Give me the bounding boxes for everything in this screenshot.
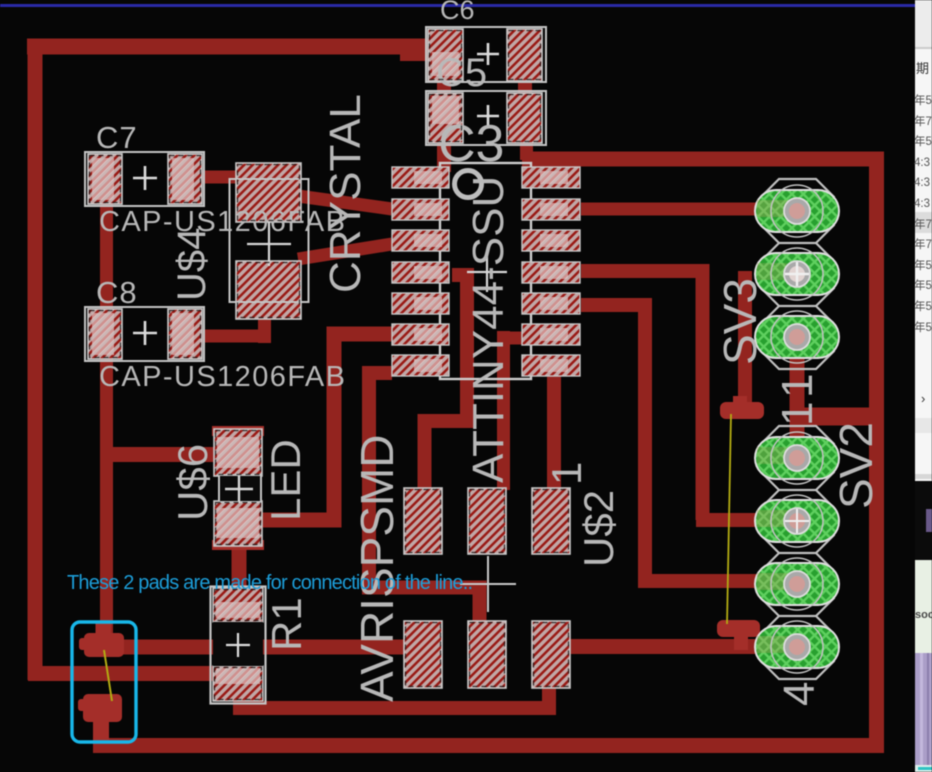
wire: C8 right to crystal bottom [202, 310, 265, 343]
wire: crystal to IC pin2 diagonal [298, 196, 392, 209]
wire: SV3 branch vertical [738, 271, 752, 405]
pad pin3 [755, 558, 839, 610]
wire: IC pin6 right to AVRISP top-middle [504, 331, 523, 490]
svg-text:年5: 年5 [914, 93, 932, 107]
svg-text:U$2: U$2 [575, 490, 622, 567]
wire: SV3 pin3 to SV2 pin1 [790, 337, 805, 458]
svg-text:C7: C7 [96, 120, 138, 155]
svg-text:›: › [921, 391, 925, 406]
connector SV2 (4-pin header) [755, 426, 839, 679]
wire: top board trace [27, 39, 430, 55]
svg-text:U$4: U$4 [170, 228, 214, 301]
crystal U$4 [230, 163, 309, 319]
silkscreen octagons [761, 179, 834, 369]
svg-text:4: 4 [775, 682, 824, 706]
svg-text:年5: 年5 [914, 299, 932, 313]
wire: AVRISP bottom-right to SV2 pin4 [570, 639, 790, 654]
wire: IC pin5 right to SV2 pin3 [581, 298, 790, 581]
svg-text:1: 1 [543, 462, 590, 485]
annotation: cyan box around jumper pads [72, 622, 136, 742]
pad pin1 [755, 185, 839, 237]
capacitor C7 [85, 152, 204, 206]
wire: SV3 pin3 to right board trace [798, 408, 876, 426]
svg-text:4:3: 4:3 [914, 177, 930, 189]
wire: IC pin4 right to SV2 pin2 [581, 264, 790, 520]
silkscreen octagons [761, 426, 834, 679]
svg-text:LED: LED [262, 439, 309, 521]
wire: left board trace [28, 39, 43, 680]
wire: right board trace [869, 152, 884, 753]
svg-text:1: 1 [773, 402, 822, 426]
svg-text:SV2: SV2 [830, 422, 882, 509]
wire: IC pin6 left to LED bottom [260, 334, 392, 520]
svg-text:CAP-US1206FAB: CAP-US1206FAB [99, 361, 345, 393]
svg-text:1: 1 [773, 374, 822, 398]
wire: C6-C5 left link [437, 78, 451, 95]
wire: airwire between jumper pads [104, 650, 112, 701]
wire: C3 left pad stub to IC pin1 [437, 140, 451, 172]
node: jumper pad top (in cyan box) [79, 621, 124, 657]
wire: C7 to crystal [200, 171, 255, 184]
wire: bottom board trace [93, 738, 884, 753]
svg-text:年7: 年7 [914, 237, 932, 251]
pad pin4 [755, 621, 839, 673]
browser page strip on right edge [914, 0, 932, 772]
svg-text:ATTINY44-SSU: ATTINY44-SSU [464, 176, 513, 483]
wire: airwire SV3 bar to SV2 bar [727, 414, 731, 624]
top blue divider line [0, 4, 915, 7]
wire: R1 bottom to AVRISP bottom-right [233, 686, 549, 715]
svg-text:年5: 年5 [914, 278, 932, 292]
pad pin2 [755, 495, 839, 547]
svg-text:C3: C3 [438, 115, 504, 173]
svg-text:期: 期 [916, 61, 929, 76]
svg-text:CRYSTAL: CRYSTAL [321, 94, 370, 293]
capacitor C3 (with C5 label) [426, 91, 546, 145]
node: SV3 connection bar terminal [720, 396, 764, 419]
connector AVRISPSMD pads 2x3 [404, 488, 570, 688]
pad pin1 [755, 432, 839, 484]
svg-text:4:3: 4:3 [914, 157, 930, 169]
capacitor C6 [426, 27, 546, 82]
wire: IC pin7 left to AVRISP bottom-middle [369, 373, 480, 624]
wire: crystal to IC pin3 diagonal [298, 244, 392, 259]
svg-text:R1: R1 [263, 597, 310, 651]
svg-text:4:3: 4:3 [914, 198, 930, 210]
wire: top-right horizontal from C3 [522, 152, 884, 167]
IC left pads pins 1-7 [392, 167, 449, 376]
svg-text:C6: C6 [440, 0, 475, 25]
wire: branch to LED top pad [107, 447, 240, 462]
wire: IC center to AVRISP top-left [425, 268, 468, 490]
wire: cyan pad to AVRISP bottom-left [106, 640, 406, 655]
svg-text:soc: soc [915, 609, 932, 621]
IC right pads pins 8-14 [522, 167, 580, 376]
svg-text:U$6: U$6 [169, 444, 216, 521]
svg-text:SV3: SV3 [714, 278, 766, 365]
svg-text:年5: 年5 [914, 320, 932, 334]
node: SV2 connection bar terminal [717, 620, 760, 650]
svg-text:年5: 年5 [914, 258, 932, 272]
svg-text:AVRISPSMD: AVRISPSMD [351, 434, 403, 702]
svg-text:These 2 pads are made for conn: These 2 pads are made for connection of … [67, 572, 473, 594]
pad pin3 [755, 311, 839, 363]
op-amp U1 : IC ATTINY44-SSU body [440, 163, 531, 379]
svg-text:CAP-US1206FAB: CAP-US1206FAB [99, 206, 345, 238]
svg-text:C8: C8 [96, 275, 138, 310]
wire: IC pin2 right to SV3 pin1 [581, 203, 793, 216]
pad pin2 [755, 248, 839, 300]
svg-text:年5: 年5 [914, 134, 932, 148]
wire: C7 left pad down long vertical [100, 200, 113, 634]
resistor R1 [211, 587, 266, 704]
wire: LED bottom to R1 top [232, 545, 247, 592]
wire: bottom-left horizontal to R1 [28, 666, 213, 681]
svg-text:年7: 年7 [914, 217, 932, 231]
wire: C6 left pad stub [400, 46, 432, 61]
wire: C3 right pad stub down [520, 138, 533, 160]
wire: IC pin7 right to AVRISP top-right [547, 373, 561, 490]
capacitor C8 [85, 307, 204, 361]
wire: C6-C5 right link [518, 78, 532, 95]
svg-text:年7: 年7 [914, 114, 932, 128]
connector SV3 (3-pin header) [755, 179, 839, 369]
node: jumper pad bottom (in cyan box) [78, 694, 122, 740]
LED U$6 [212, 426, 264, 550]
